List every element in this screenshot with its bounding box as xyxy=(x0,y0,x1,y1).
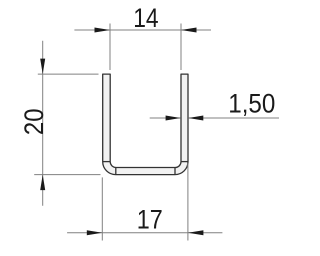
dimension 1,50: right leader line xyxy=(188,117,279,119)
svg-text:20: 20 xyxy=(20,108,50,135)
bend tangent line bottom right xyxy=(174,168,176,175)
dimension 17: left extension line xyxy=(101,177,103,240)
dimension 14: left arrow xyxy=(95,28,111,33)
dimension 20: dimension line xyxy=(42,41,44,206)
dimension 14: dimension line xyxy=(74,29,211,31)
U-channel profile section xyxy=(103,74,188,175)
dimension 17: right extension line xyxy=(187,164,189,241)
dimension 1,50: left leader line xyxy=(150,117,181,119)
dimension 17: right arrow xyxy=(188,230,204,235)
svg-text:17: 17 xyxy=(137,205,163,235)
dimension 20: top extension line xyxy=(38,73,99,75)
dimension 20: bottom extension line xyxy=(34,174,100,176)
dimension 17: left arrow xyxy=(87,230,103,235)
dimension 20: top arrow xyxy=(40,59,45,75)
dimension 17: dimension line xyxy=(67,232,222,234)
dimension 14: right arrow xyxy=(181,28,197,33)
dimension 1,50: right arrow xyxy=(188,116,203,121)
dimension 14: right extension line xyxy=(180,24,182,71)
dimension 1,50: left arrow xyxy=(166,116,181,121)
dimension 20: bottom arrow xyxy=(40,175,45,191)
svg-text:14: 14 xyxy=(133,3,158,33)
dimension 14: left extension line xyxy=(109,24,111,71)
svg-text:1,50: 1,50 xyxy=(228,89,275,119)
bend tangent line left wall xyxy=(103,161,111,163)
bend tangent line right wall xyxy=(181,161,188,163)
bend tangent line bottom left xyxy=(115,168,117,175)
